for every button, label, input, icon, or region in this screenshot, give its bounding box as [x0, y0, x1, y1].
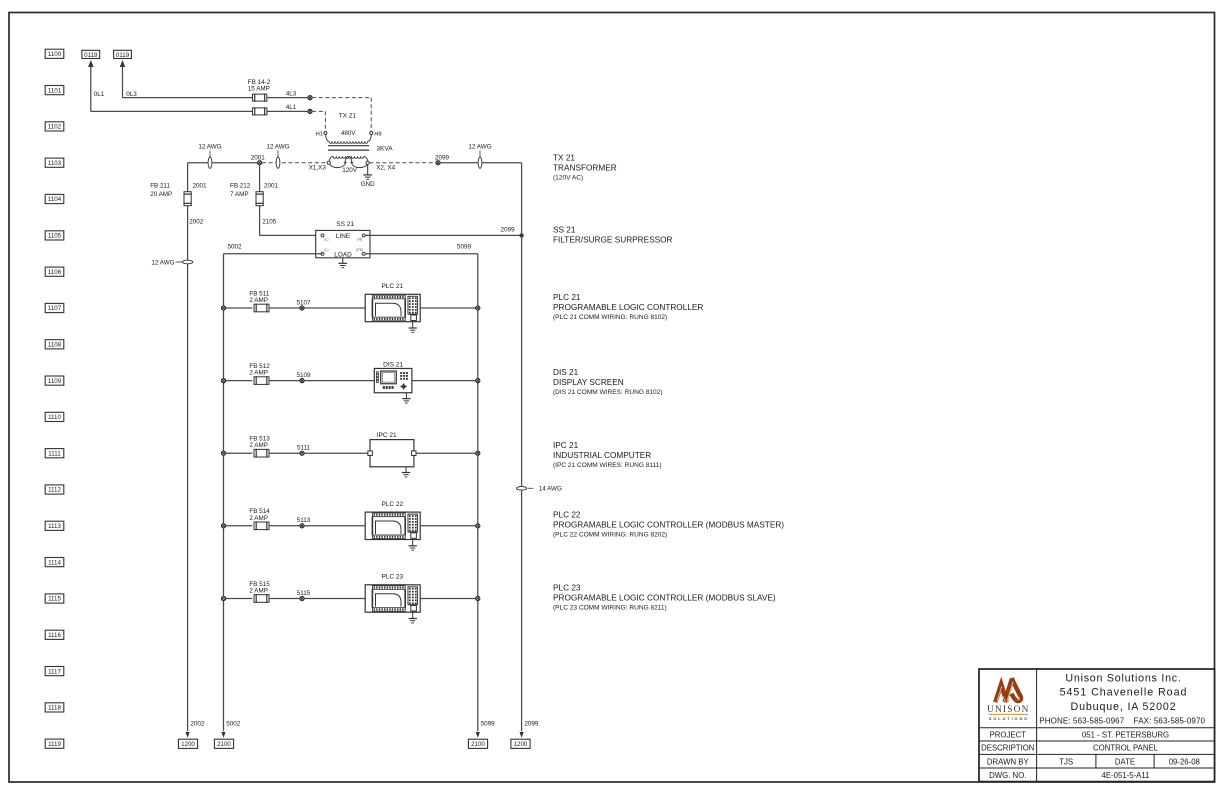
annotation PLC 21	[553, 293, 703, 321]
svg-text:2099: 2099	[501, 226, 516, 233]
svg-text:PLC 23: PLC 23	[381, 574, 403, 581]
wire 5002 bottom arrow	[221, 721, 240, 738]
title block DESCRIPTION row	[981, 744, 1158, 753]
wire 2099 bottom arrow	[520, 721, 539, 738]
svg-text:1107: 1107	[48, 305, 62, 312]
node 2001 terminal	[251, 154, 266, 164]
wire DIS 21 to 5099 rail	[412, 380, 478, 382]
svg-text:1115: 1115	[48, 596, 61, 603]
rung number 1106	[45, 267, 64, 276]
svg-text:2099: 2099	[524, 721, 539, 728]
dashed wire 4L1 to H1	[312, 111, 325, 131]
wire 2099 to right rail	[440, 162, 521, 164]
svg-text:UNISON: UNISON	[987, 705, 1030, 715]
wire FB 514 to 5113	[269, 525, 300, 527]
svg-text:DIS 21: DIS 21	[383, 361, 403, 368]
junction 1113 on 5002 rail	[221, 524, 225, 528]
Unison Solutions logo mark	[995, 678, 1021, 702]
fuse FB 513 2 AMP	[249, 436, 270, 458]
svg-text:TJS: TJS	[1059, 757, 1073, 766]
svg-text:12 AWG: 12 AWG	[151, 259, 174, 266]
svg-text:09-26-08: 09-26-08	[1169, 757, 1200, 766]
device DIS 21	[374, 368, 412, 392]
svg-text:2001: 2001	[251, 154, 266, 161]
rung number 1102	[45, 122, 64, 131]
wire IPC 21 to 5099 rail	[416, 452, 478, 454]
rung number 1115	[45, 594, 64, 603]
svg-text:15 AMP: 15 AMP	[248, 85, 270, 92]
svg-text:FB 211: FB 211	[150, 183, 170, 190]
svg-text:1200: 1200	[181, 741, 195, 748]
svg-text:X2, X4: X2, X4	[376, 165, 395, 172]
device IPC 21	[368, 440, 416, 467]
svg-text:IPC 21: IPC 21	[553, 441, 579, 450]
svg-text:5099: 5099	[481, 721, 496, 728]
transformer TX21 secondary winding 120V	[327, 156, 369, 174]
svg-text:1106: 1106	[48, 269, 62, 276]
svg-text:1200: 1200	[514, 741, 528, 748]
svg-text:5451 Chavenelle Road: 5451 Chavenelle Road	[1060, 687, 1188, 699]
svg-text:2 AMP: 2 AMP	[249, 515, 268, 522]
svg-text:2001: 2001	[193, 182, 208, 189]
svg-text:1108: 1108	[48, 342, 62, 349]
transformer TX21 primary H1 terminal	[316, 131, 327, 137]
junction 1115 on 5002 rail	[221, 596, 225, 600]
terminal 5107	[296, 299, 311, 310]
ground at PLC 21	[409, 322, 417, 333]
wire 5113 to PLC 22	[304, 525, 365, 527]
svg-text:1112: 1112	[48, 487, 61, 494]
svg-text:CONTROL PANEL: CONTROL PANEL	[1093, 744, 1159, 753]
svg-text:(PE): (PE)	[356, 248, 363, 252]
ground at PLC 23	[409, 612, 417, 623]
terminal 5111	[297, 445, 311, 456]
svg-text:2002: 2002	[189, 218, 204, 225]
svg-text:12 AWG: 12 AWG	[468, 144, 491, 151]
terminal 5109	[296, 372, 311, 383]
title block PROJECT row	[990, 730, 1169, 739]
svg-text:Dubuque, IA 52002: Dubuque, IA 52002	[1071, 701, 1177, 713]
svg-text:SS 21: SS 21	[336, 221, 354, 228]
svg-text:PLC 21: PLC 21	[381, 283, 403, 290]
svg-text:051 - ST. PETERSBURG: 051 - ST. PETERSBURG	[1082, 730, 1169, 739]
svg-text:2 AMP: 2 AMP	[249, 588, 268, 595]
svg-text:1117: 1117	[48, 668, 61, 675]
svg-text:PROGRAMABLE LOGIC CONTROLLER (: PROGRAMABLE LOGIC CONTROLLER (MODBUS MAS…	[553, 520, 784, 529]
svg-text:PROGRAMABLE LOGIC CONTROLLER (: PROGRAMABLE LOGIC CONTROLLER (MODBUS SLA…	[553, 594, 776, 603]
ground at IPC 21	[402, 467, 410, 477]
rung number 1101	[45, 86, 64, 95]
wire 5111 to IPC 21	[304, 452, 368, 454]
junction 1113 on 5099 rail	[476, 524, 480, 528]
svg-text:DATE: DATE	[1115, 757, 1135, 766]
wire 2105 to SS21 LINE	[260, 234, 321, 236]
wire 4L1	[267, 104, 308, 111]
svg-text:FB 212: FB 212	[230, 183, 251, 190]
svg-text:(DIS 21 COMM WIRES: RUNG 8102): (DIS 21 COMM WIRES: RUNG 8102)	[553, 389, 663, 396]
svg-text:1101: 1101	[48, 87, 62, 94]
rung number 1109	[45, 376, 64, 385]
fuse FB 14-2 (upper, on 4L3)	[248, 79, 271, 102]
wire 4L3	[267, 90, 308, 97]
svg-text:2002: 2002	[190, 721, 205, 728]
svg-text:5002: 5002	[228, 244, 243, 251]
title block DRAWN BY row	[987, 757, 1200, 766]
wire gauge marker 12 AWG (mid)	[266, 144, 289, 169]
filter/surge suppressor SS 21	[316, 221, 370, 258]
svg-text:2099: 2099	[435, 154, 450, 161]
rung number 1112	[45, 485, 64, 494]
wire 5115 to PLC 23	[304, 598, 365, 600]
wire PLC 23 to 5099 rail	[420, 598, 478, 600]
svg-text:120V: 120V	[342, 167, 358, 174]
svg-text:LOAD: LOAD	[334, 251, 352, 258]
svg-text:1111: 1111	[48, 450, 61, 457]
svg-text:1103: 1103	[48, 160, 62, 167]
svg-text:4L3: 4L3	[286, 90, 297, 97]
svg-text:12 AWG: 12 AWG	[198, 144, 221, 151]
terminal 4L3	[308, 96, 312, 100]
wire rung 1113 left segment	[224, 525, 253, 527]
svg-text:1119: 1119	[48, 741, 61, 748]
svg-text:1114: 1114	[48, 559, 61, 566]
fuse FB 515 2 AMP	[249, 581, 270, 603]
device PLC 23	[365, 585, 420, 612]
node 1200 destination box (2002)	[178, 739, 197, 748]
fuse FB 512 2 AMP	[249, 363, 270, 385]
junction 1111 on 5099 rail	[476, 451, 480, 455]
wire rung 1115 left segment	[224, 598, 253, 600]
wire FB 513 to 5111	[269, 452, 300, 454]
junction 1107 on 5099 rail	[476, 306, 480, 310]
wire 5099 from SS21 LOAD right	[365, 243, 478, 731]
svg-text:2100: 2100	[217, 741, 231, 748]
title block frame	[979, 669, 1215, 782]
rung number 1116	[45, 630, 64, 639]
svg-text:(N): (N)	[357, 238, 362, 242]
wire gauge marker 14 AWG (on 2099 rail)	[516, 486, 562, 493]
svg-text:H8: H8	[374, 131, 381, 137]
svg-text:480V: 480V	[341, 130, 357, 137]
wire gauge marker 12 AWG (on 2002 rail)	[151, 259, 192, 266]
wire left rail 2002 vertical	[187, 163, 189, 732]
svg-text:4E-051-5-A11: 4E-051-5-A11	[1102, 771, 1150, 780]
svg-text:LINE: LINE	[336, 233, 350, 240]
rung number 1107	[45, 303, 64, 312]
node 0119 reference box A	[82, 50, 100, 59]
svg-text:SS 21: SS 21	[553, 225, 576, 234]
svg-text:0L3: 0L3	[126, 91, 137, 98]
svg-text:DIS 21: DIS 21	[553, 368, 579, 377]
wire gauge marker 12 AWG (right)	[468, 144, 491, 169]
ground at DIS 21	[402, 393, 410, 403]
svg-text:1100: 1100	[48, 51, 62, 58]
svg-text:DISPLAY SCREEN: DISPLAY SCREEN	[553, 378, 624, 387]
rung number 1105	[45, 231, 64, 240]
svg-text:2105: 2105	[262, 218, 277, 225]
svg-text:PLC 21: PLC 21	[553, 293, 581, 302]
fuse FB 511 2 AMP	[249, 290, 269, 312]
wire FB 515 to 5115	[269, 598, 300, 600]
svg-text:(PLC 23 COMM WIRING: RUNG 8211: (PLC 23 COMM WIRING: RUNG 8211)	[553, 605, 667, 612]
svg-text:(PLC 21 COMM WIRING: RUNG 8102: (PLC 21 COMM WIRING: RUNG 8102)	[553, 314, 667, 321]
annotation DIS 21	[553, 368, 663, 396]
svg-text:PROJECT: PROJECT	[990, 730, 1027, 739]
wire 5099 bottom arrow	[476, 721, 495, 738]
svg-text:5109: 5109	[296, 372, 311, 379]
annotation SS 21	[553, 225, 673, 244]
dashed wire 4L3 to H8	[312, 98, 371, 132]
node 2100 destination box (5002)	[214, 739, 233, 748]
svg-text:14 AWG: 14 AWG	[539, 486, 562, 493]
terminal 5113	[297, 517, 311, 528]
transformer TX21 primary H8 terminal	[370, 131, 382, 137]
svg-text:DESCRIPTION: DESCRIPTION	[981, 744, 1034, 753]
rung number 1110	[45, 412, 64, 421]
rung number 1108	[45, 340, 64, 349]
svg-text:0119: 0119	[116, 52, 130, 59]
ground GND at TX21 secondary	[361, 164, 375, 188]
title block DWG. NO. row	[989, 771, 1149, 780]
svg-text:(PLC 22 COMM WIRING: RUNG 8202: (PLC 22 COMM WIRING: RUNG 8202)	[553, 531, 667, 538]
rung number 1111	[45, 449, 64, 458]
transformer TX21 core	[328, 146, 369, 150]
svg-text:(IPC 21 COMM WIRES: RUNG 8111): (IPC 21 COMM WIRES: RUNG 8111)	[553, 462, 662, 469]
svg-text:(L): (L)	[324, 238, 328, 242]
svg-text:0L1: 0L1	[94, 91, 105, 98]
wire FB 512 to 5109	[269, 380, 300, 382]
svg-text:1113: 1113	[48, 523, 61, 530]
junction 1109 on 5099 rail	[476, 379, 480, 383]
svg-text:5107: 5107	[296, 299, 311, 306]
dashed wire X2,X4 to 2099	[369, 162, 436, 164]
svg-text:IPC 21: IPC 21	[377, 432, 397, 439]
svg-text:(120V AC): (120V AC)	[553, 175, 583, 182]
svg-text:5111: 5111	[297, 445, 311, 452]
svg-text:1105: 1105	[48, 233, 62, 240]
svg-text:PLC 23: PLC 23	[553, 584, 581, 593]
wire rung 1107 left segment	[224, 307, 253, 309]
fuse FB 14-2 (lower, on 4L1)	[253, 107, 267, 115]
svg-text:2 AMP: 2 AMP	[249, 442, 268, 449]
svg-text:PROGRAMABLE LOGIC CONTROLLER: PROGRAMABLE LOGIC CONTROLLER	[553, 303, 703, 312]
wire rung 1109 left segment	[224, 380, 253, 382]
svg-text:1109: 1109	[48, 378, 62, 385]
annotation IPC 21	[553, 441, 662, 469]
svg-text:5113: 5113	[297, 517, 311, 524]
svg-text:1110: 1110	[48, 414, 61, 421]
wire 5002 from SS21 LOAD left	[224, 244, 323, 732]
rung number 1103	[45, 158, 64, 167]
wire PLC 21 to 5099 rail	[420, 307, 478, 309]
rung number 1117	[45, 667, 64, 676]
svg-text:TX 21: TX 21	[553, 154, 575, 163]
annotation PLC 23	[553, 584, 776, 612]
ground at SS 21	[338, 258, 347, 268]
svg-text:12 AWG: 12 AWG	[266, 144, 289, 151]
title block company address	[1060, 672, 1188, 713]
device PLC 21	[365, 294, 420, 321]
junction 1115 on 5099 rail	[476, 596, 480, 600]
fuse FB 514 2 AMP	[249, 508, 270, 530]
svg-text:GND: GND	[361, 181, 375, 188]
junction 1109 on 5002 rail	[221, 379, 225, 383]
wire rung 1111 left segment	[224, 452, 253, 454]
svg-text:PLC 22: PLC 22	[553, 510, 581, 519]
wire 0L3 (arrow up to 0119, down to 4L3 run)	[120, 60, 253, 98]
device PLC 22	[365, 512, 420, 539]
rung number 1114	[45, 558, 64, 567]
wire gauge marker 12 AWG (left)	[198, 144, 221, 169]
annotation TX 21	[553, 154, 617, 182]
wire FB 511 to 5107	[269, 307, 300, 309]
svg-text:Unison Solutions Inc.: Unison Solutions Inc.	[1065, 672, 1181, 684]
svg-text:FILTER/SURGE SURPRESSOR: FILTER/SURGE SURPRESSOR	[553, 236, 673, 245]
ground at PLC 22	[409, 540, 417, 551]
svg-text:0119: 0119	[84, 52, 98, 59]
wire SS21 LINE to right rail 2099	[365, 226, 521, 235]
svg-text:1104: 1104	[48, 196, 62, 203]
svg-text:3KVA: 3KVA	[376, 145, 393, 152]
wire 5109 to DIS 21	[304, 380, 374, 382]
fuse FB 212 7 AMP	[230, 182, 279, 225]
svg-text:INDUSTRIAL COMPUTER: INDUSTRIAL COMPUTER	[553, 451, 651, 460]
svg-text:5002: 5002	[226, 721, 241, 728]
svg-text:2100: 2100	[471, 741, 485, 748]
svg-text:PLC 22: PLC 22	[381, 501, 403, 508]
svg-text:TX 21: TX 21	[339, 113, 357, 120]
rung number 1100	[45, 49, 64, 58]
svg-text:X1,X3: X1,X3	[309, 165, 327, 172]
svg-text:20 AMP: 20 AMP	[150, 191, 172, 198]
svg-text:(L): (L)	[324, 248, 328, 252]
terminal 5115	[297, 590, 311, 601]
svg-text:1118: 1118	[48, 705, 61, 712]
svg-text:DWG. NO.: DWG. NO.	[989, 771, 1026, 780]
svg-text:SOLUTIONS: SOLUTIONS	[989, 716, 1029, 721]
fuse FB 211 20 AMP	[150, 182, 207, 225]
svg-text:TRANSFORMER: TRANSFORMER	[553, 164, 617, 173]
svg-text:5115: 5115	[297, 590, 311, 597]
node 1200 destination box (2099)	[511, 739, 530, 748]
wire 5107 to PLC 21	[304, 307, 365, 309]
svg-text:4L1: 4L1	[286, 104, 297, 111]
svg-text:H1: H1	[316, 131, 323, 137]
rung number 1118	[45, 703, 64, 712]
rung number 1119	[45, 739, 64, 748]
svg-text:1116: 1116	[48, 632, 61, 639]
svg-text:2 AMP: 2 AMP	[249, 370, 268, 377]
terminal 2099	[435, 154, 450, 164]
svg-text:2001: 2001	[264, 182, 279, 189]
svg-text:PHONE: 563-585-0967 FAX: 56: PHONE: 563-585-0967 FAX: 563-585-0970	[1039, 717, 1205, 726]
junction at 2099 / SS21 LINE	[519, 233, 523, 237]
junction 1107 on 5002 rail	[221, 306, 225, 310]
wire 0L1 (arrow up to 0119, down to 4L1 run)	[88, 60, 253, 111]
rung number 1113	[45, 521, 64, 530]
wire right rail 2099 vertical	[521, 163, 523, 732]
junction 1111 on 5002 rail	[221, 451, 225, 455]
rung number 1104	[45, 194, 64, 203]
svg-text:2 AMP: 2 AMP	[249, 297, 268, 304]
node 0119 reference box B	[114, 50, 132, 59]
terminal 4L1	[308, 109, 312, 113]
svg-text:DRAWN BY: DRAWN BY	[987, 757, 1030, 766]
node 2100 destination box (5099)	[468, 739, 487, 748]
svg-text:5099: 5099	[457, 243, 472, 250]
svg-text:1102: 1102	[48, 124, 62, 131]
Unison logo rule	[989, 714, 1029, 715]
wire 2001 branch down	[259, 165, 261, 236]
wire rung 1103 from left rail to 2001	[188, 162, 258, 164]
transformer TX21 primary winding 480V	[326, 130, 372, 143]
dashed wire 2001 to X1,X3	[262, 162, 327, 164]
svg-text:7 AMP: 7 AMP	[230, 191, 249, 198]
annotation PLC 22	[553, 510, 784, 538]
wire PLC 22 to 5099 rail	[420, 525, 478, 527]
wire 2002 bottom arrow	[186, 721, 205, 738]
